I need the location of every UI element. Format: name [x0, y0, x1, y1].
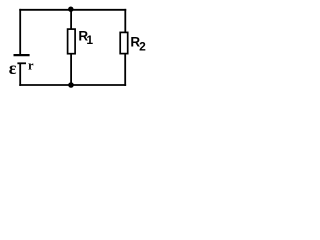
resistor R1 body (rectangle): [68, 29, 76, 54]
wire: bottom horizontal (return path): [19, 84, 126, 86]
wire: left vertical upper (top wire down to battery top plate): [19, 9, 21, 54]
svg-text:2: 2: [139, 40, 146, 54]
node: bottom junction dot: [68, 82, 74, 88]
wire: R1 top lead (from top junction down to R1 body): [70, 10, 72, 29]
svg-text:ε: ε: [9, 58, 17, 78]
wire: left vertical lower (battery bottom plate down to bottom wire): [19, 64, 21, 86]
battery cell: short bottom plate (negative terminal): [17, 62, 26, 64]
node: top junction dot: [68, 7, 73, 12]
wire: R1 bottom lead (from R1 body down to bottom junction): [70, 54, 72, 85]
wire: R2 bottom lead (from R2 body down to bottom-right corner): [124, 54, 126, 86]
svg-text:1: 1: [86, 33, 93, 47]
wire: top horizontal (battery + to R1/R2 tops): [19, 9, 126, 11]
wire: R2 top lead (top-right corner down to R2 body): [124, 9, 126, 32]
resistor R2 body (rectangle): [120, 32, 128, 53]
battery cell: long top plate (positive terminal): [14, 54, 30, 56]
svg-text:r: r: [28, 58, 34, 72]
